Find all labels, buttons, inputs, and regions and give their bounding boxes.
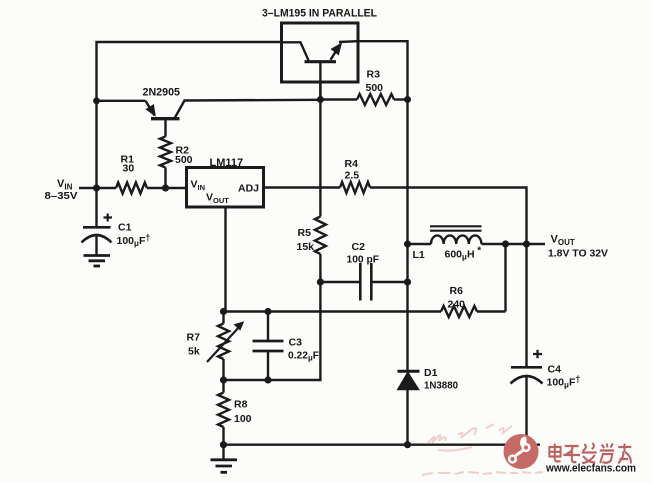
wire ADJ line xyxy=(264,186,341,188)
wire R4 right to output corner xyxy=(370,188,527,245)
node ground rail left xyxy=(220,441,227,448)
wire top rail right xyxy=(358,41,408,371)
resistor R2 xyxy=(160,137,171,168)
plus sign C4 xyxy=(533,350,542,359)
resistor R7 xyxy=(218,324,229,360)
ground below C1 xyxy=(84,254,111,257)
arrowhead Q1 emitter xyxy=(145,104,156,117)
diode D1 leads xyxy=(406,389,408,445)
transistor U2 LM195 box xyxy=(282,23,359,82)
watermark scribble xyxy=(422,424,543,475)
resistor R8 xyxy=(218,380,229,445)
wire R7 bottom stub xyxy=(222,359,224,380)
capacitor C1 xyxy=(83,226,111,229)
wire VIN input line xyxy=(79,187,116,189)
watermark logo xyxy=(504,434,539,469)
arrowhead U2 emitter xyxy=(331,43,343,56)
node R7 bottom xyxy=(220,376,227,383)
wire top rail left xyxy=(97,42,282,189)
node R7 top xyxy=(220,308,227,315)
node R2 base xyxy=(162,184,169,191)
wire collector run to LM195 node xyxy=(184,99,321,102)
transistor U2 internals xyxy=(282,42,309,60)
node C2 right xyxy=(404,278,411,285)
node C2 left xyxy=(317,278,324,285)
resistor R1 xyxy=(116,183,147,194)
plus sign C1 xyxy=(104,214,113,222)
wire vout row xyxy=(408,243,432,245)
capacitor C2 xyxy=(320,281,359,283)
wire R7/C3 bottom line xyxy=(224,379,269,381)
wire R7/C3 top line + R6 line xyxy=(224,310,442,312)
node C3 top xyxy=(264,308,271,315)
capacitor C3 xyxy=(267,312,269,342)
node R3 right xyxy=(404,96,411,103)
node LM195 emitter xyxy=(317,96,324,103)
node left rail / Q1 emitter xyxy=(93,97,100,104)
wire C1 top lead xyxy=(95,188,97,227)
wire LM195 emitter rail xyxy=(319,82,321,217)
wire emitter feed 2N2905 xyxy=(97,100,146,102)
resistor R6 xyxy=(441,306,477,317)
diode D1 xyxy=(398,370,420,373)
wire R3 left stub xyxy=(320,98,357,100)
wire base lead 2N2905 xyxy=(164,120,166,137)
wire R5 bottom run xyxy=(268,254,320,380)
resistor R3 xyxy=(357,94,394,105)
wire L1 to VOUT terminal xyxy=(481,243,545,245)
potentiometer arrow R7 xyxy=(207,326,240,362)
wire R7 top stub xyxy=(222,312,224,324)
wire R1 to LM117 xyxy=(147,187,186,189)
wire R6 riser xyxy=(504,244,506,312)
wire bottom rail xyxy=(224,444,541,446)
node C3 bottom xyxy=(264,376,271,383)
node R6 top xyxy=(502,240,509,247)
resistor R5 xyxy=(315,217,326,255)
wire R2 bottom xyxy=(164,168,166,189)
node L1 left xyxy=(404,240,411,247)
wire LM117 VOUT lead down xyxy=(224,207,226,312)
glyph 电 xyxy=(549,444,560,462)
inductor L1 xyxy=(431,235,481,244)
ground below R8 xyxy=(222,445,224,460)
node VIN xyxy=(93,184,100,191)
wire R6 right stub xyxy=(477,310,506,312)
wire R3 right stub xyxy=(394,98,408,100)
node D1 anode xyxy=(404,441,411,448)
node VOUT C4 xyxy=(523,240,530,247)
op-amp U1 LM117 box xyxy=(187,168,264,208)
resistor R4 xyxy=(340,182,370,193)
capacitor C4 xyxy=(511,366,542,369)
transistor Q1 2N2905 body xyxy=(146,101,155,116)
capacitor C4 lead xyxy=(525,244,527,367)
